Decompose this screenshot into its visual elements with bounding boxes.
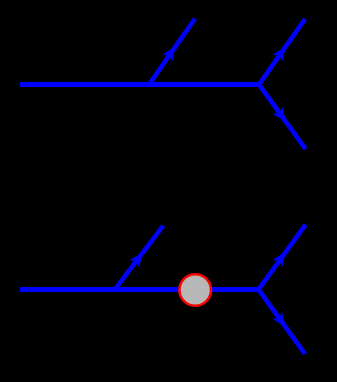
wire: bottom radiated branch (upper-left)	[115, 226, 163, 290]
blob: interaction vertex circle	[179, 274, 211, 306]
wire: bottom lower-right outgoing branch	[259, 290, 306, 355]
wire: top radiated branch (upper-left)	[149, 19, 195, 85]
arrow on top radiated branch	[163, 46, 176, 61]
wire: top upper-right outgoing branch	[259, 19, 305, 85]
wire: bottom upper-right outgoing branch	[259, 225, 306, 290]
wire: top lower-right outgoing branch	[259, 85, 306, 150]
wire: top incoming horizontal line	[20, 82, 259, 87]
arrow on bottom radiated branch	[129, 252, 143, 267]
arrow on top upper-right branch	[273, 46, 286, 61]
arrow on bottom lower-right branch	[272, 312, 285, 327]
arrow on top lower-right branch	[273, 107, 286, 122]
arrow on bottom upper-right branch	[272, 252, 285, 267]
wire: bottom incoming horizontal line	[20, 287, 259, 292]
